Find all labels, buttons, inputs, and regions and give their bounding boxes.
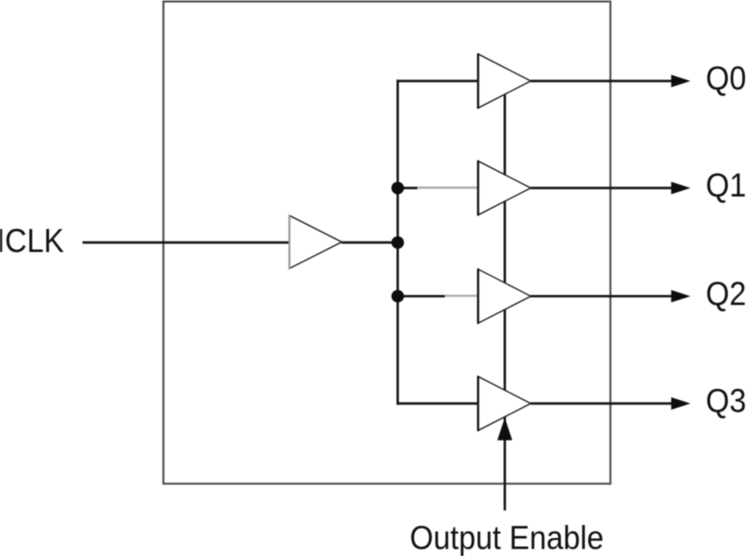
- wire branch Q2 black stub: [398, 295, 445, 297]
- wire output Q3: [531, 402, 673, 404]
- tri-state buffer Q0: [478, 53, 531, 108]
- wire branch Q2 gray segment: [445, 295, 479, 297]
- arrowhead Output Enable: [497, 418, 512, 440]
- wire bus vertical: [397, 80, 399, 405]
- svg-text:Q0: Q0: [706, 59, 746, 96]
- wire branch Q1 gray segment: [417, 187, 478, 189]
- tri-state buffer Q3: [478, 376, 531, 431]
- wire OE vertical (enable net): [504, 94, 506, 510]
- wire branch Q1 black stub: [398, 187, 418, 189]
- wire output Q1: [531, 187, 673, 189]
- svg-text:Q3: Q3: [706, 382, 746, 419]
- tri-state buffer Q1: [478, 160, 531, 215]
- svg-text:Output Enable: Output Enable: [410, 519, 604, 556]
- svg-text:ICLK: ICLK: [0, 222, 64, 259]
- wire branch Q3: [397, 402, 479, 404]
- input buffer U1: [289, 215, 341, 269]
- svg-text:Q2: Q2: [706, 275, 746, 312]
- wire output Q2: [531, 295, 673, 297]
- device outline box: [163, 2, 610, 484]
- tri-state buffer Q2: [478, 269, 531, 324]
- wire output Q0: [531, 80, 673, 82]
- wire ICLK input: [83, 241, 289, 243]
- junction dot ICLK: [391, 236, 404, 249]
- arrowhead Q2: [671, 290, 690, 302]
- junction dot Q2: [391, 290, 404, 303]
- arrowhead Q0: [671, 75, 690, 87]
- arrowhead Q1: [671, 182, 690, 194]
- arrowhead Q3: [671, 397, 690, 409]
- svg-text:Q1: Q1: [706, 166, 746, 203]
- junction dot Q1: [391, 182, 404, 195]
- wire buffer output to bus: [342, 241, 398, 243]
- wire branch Q0: [397, 80, 479, 82]
